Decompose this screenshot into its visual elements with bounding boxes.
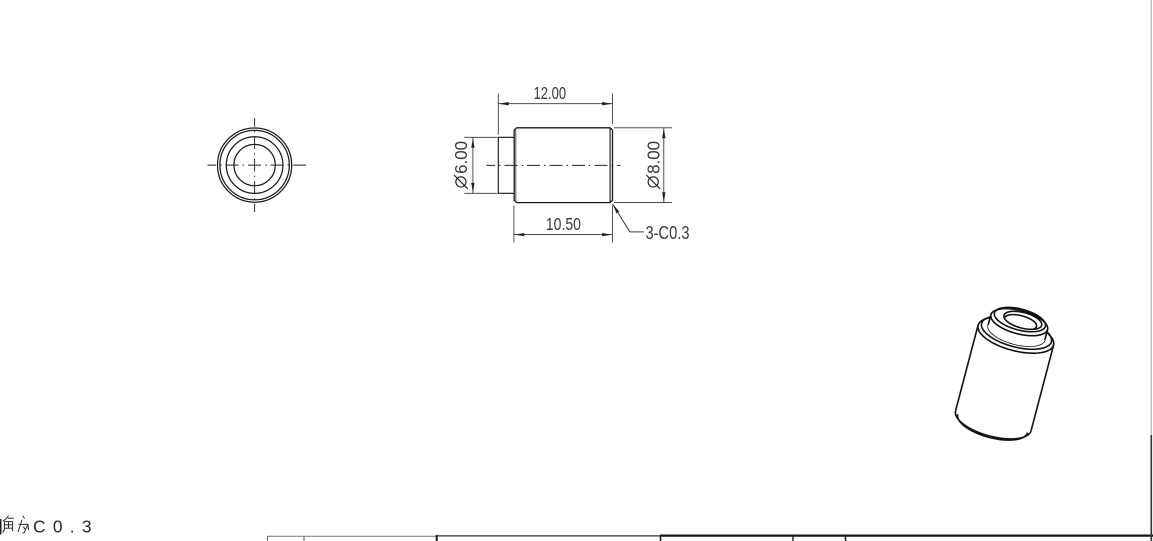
- svg-text:3-C0.3: 3-C0.3: [646, 223, 690, 243]
- svg-text:10.50: 10.50: [546, 214, 581, 234]
- svg-text:8.00: 8.00: [643, 141, 663, 174]
- svg-text:C0.3: C0.3: [33, 516, 92, 536]
- svg-text:12.00: 12.00: [534, 83, 567, 103]
- svg-text:6.00: 6.00: [451, 141, 471, 174]
